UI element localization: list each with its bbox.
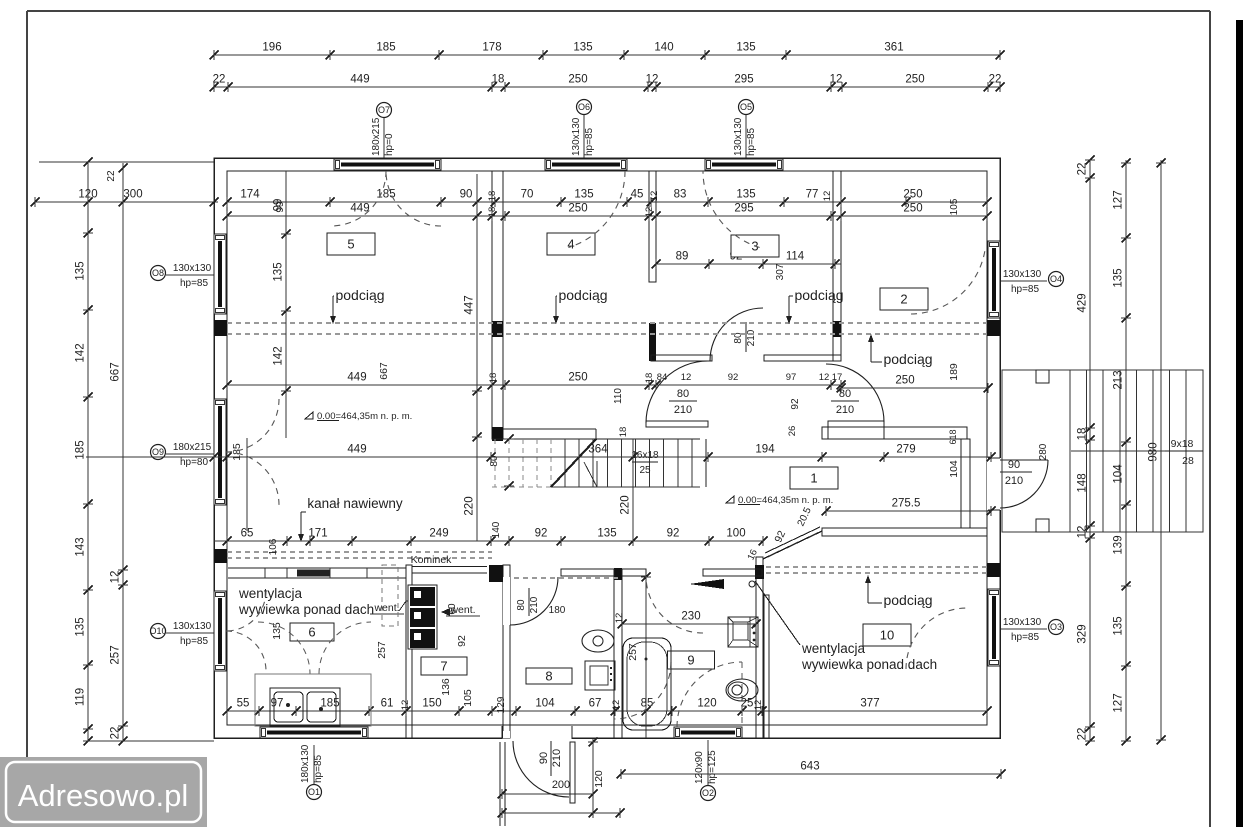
svg-text:280: 280 [1038,443,1049,460]
svg-text:130x130: 130x130 [733,117,744,156]
svg-text:18: 18 [492,74,505,86]
svg-text:135: 135 [1113,268,1125,287]
svg-text:12: 12 [681,372,692,383]
svg-text:127: 127 [1113,693,1125,712]
svg-text:275.5: 275.5 [905,502,908,504]
svg-text:18: 18 [488,373,499,384]
svg-text:139: 139 [1113,535,1125,554]
svg-text:130x130: 130x130 [173,263,212,274]
svg-text:22: 22 [1077,728,1089,741]
svg-text:135: 135 [597,528,616,540]
svg-text:200: 200 [552,779,570,791]
svg-text:185: 185 [231,443,243,461]
svg-text:250: 250 [903,203,922,215]
svg-text:O1: O1 [308,787,320,797]
svg-text:77: 77 [806,189,819,201]
svg-text:618: 618 [948,429,958,444]
svg-text:kanał nawiewny: kanał nawiewny [307,496,403,511]
svg-text:135: 135 [573,42,592,54]
svg-text:140: 140 [654,42,673,54]
svg-text:329: 329 [1077,624,1089,643]
svg-text:135: 135 [574,189,593,201]
svg-text:449: 449 [350,74,369,86]
svg-text:185: 185 [320,698,339,710]
svg-text:90: 90 [538,752,550,764]
svg-text:129: 129 [496,696,507,713]
svg-text:110: 110 [613,388,624,404]
svg-text:28: 28 [1182,455,1194,467]
svg-text:130x130: 130x130 [1003,269,1042,280]
svg-text:O6: O6 [578,102,590,112]
svg-text:210: 210 [529,596,540,613]
svg-text:12: 12 [819,372,830,383]
svg-text:257: 257 [110,645,122,664]
svg-text:361: 361 [884,42,903,54]
svg-text:185: 185 [376,189,395,201]
svg-text:Kominek: Kominek [411,554,453,566]
svg-text:180x215: 180x215 [173,442,212,453]
svg-text:went.: went. [373,602,399,614]
svg-text:250: 250 [568,74,587,86]
svg-text:250: 250 [568,372,587,384]
svg-text:89: 89 [676,251,689,263]
svg-text:O7: O7 [378,105,390,115]
svg-text:12: 12 [400,700,411,711]
svg-text:22: 22 [110,727,122,740]
svg-text:9: 9 [687,653,694,668]
svg-text:83: 83 [674,189,687,201]
svg-text:18: 18 [644,373,655,384]
svg-text:250: 250 [905,74,924,86]
svg-text:hp=85: hp=85 [313,754,324,783]
svg-text:O8: O8 [152,268,164,278]
svg-text:135: 135 [271,622,283,640]
svg-text:12: 12 [110,571,122,584]
svg-text:105: 105 [462,689,474,707]
svg-text:hp=0: hp=0 [384,133,395,156]
svg-text:12: 12 [649,191,660,202]
svg-text:hp=85: hp=85 [746,127,757,156]
svg-text:142: 142 [273,346,285,365]
svg-text:104: 104 [948,460,960,478]
svg-text:podciąg: podciąg [883,592,932,608]
svg-text:180: 180 [549,605,566,616]
svg-text:18: 18 [487,207,498,218]
svg-text:podciąg: podciąg [883,351,932,367]
svg-text:wentylacja: wentylacja [238,586,303,601]
svg-text:250: 250 [895,375,914,387]
svg-text:4: 4 [567,237,574,252]
svg-text:92: 92 [667,528,680,540]
svg-text:135: 135 [736,42,755,54]
svg-text:92: 92 [728,372,739,383]
svg-text:447: 447 [464,295,476,314]
svg-text:Adresowo.pl: Adresowo.pl [18,778,189,813]
svg-text:667: 667 [110,362,122,381]
svg-text:O10: O10 [149,626,166,636]
svg-text:213: 213 [1113,370,1125,389]
svg-text:17: 17 [832,372,843,383]
svg-text:O9: O9 [152,447,164,457]
svg-text:120: 120 [697,698,716,710]
svg-text:70: 70 [521,189,534,201]
svg-text:249: 249 [429,528,448,540]
svg-text:O5: O5 [740,102,752,112]
svg-text:307: 307 [775,263,786,280]
svg-text:65: 65 [241,528,254,540]
svg-text:196: 196 [262,42,281,54]
svg-text:hp=85: hp=85 [1011,284,1040,295]
svg-text:185: 185 [376,42,395,54]
svg-text:364: 364 [588,444,608,456]
svg-text:wentylacja: wentylacja [801,641,866,656]
svg-text:300: 300 [123,189,142,201]
svg-text:250: 250 [568,203,587,215]
svg-text:171: 171 [308,528,327,540]
svg-text:643: 643 [800,761,819,773]
svg-text:22: 22 [1077,163,1089,176]
svg-text:150: 150 [422,698,441,710]
svg-text:92: 92 [456,635,468,647]
svg-text:178: 178 [482,42,501,54]
svg-text:250: 250 [903,189,922,201]
svg-text:120: 120 [593,770,605,788]
svg-text:podciąg: podciąg [794,287,843,303]
svg-text:377: 377 [860,698,879,710]
svg-text:135: 135 [736,189,755,201]
svg-text:12: 12 [646,74,659,86]
svg-text:22: 22 [106,170,117,182]
svg-text:10: 10 [880,628,894,643]
svg-text:podciąg: podciąg [558,287,607,303]
svg-text:210: 210 [836,404,854,416]
svg-text:90: 90 [460,189,473,201]
svg-text:12: 12 [611,700,622,711]
svg-text:104: 104 [535,698,555,710]
svg-text:9x18: 9x18 [1171,438,1194,450]
svg-text:220: 220 [464,496,476,515]
svg-text:90: 90 [1008,459,1020,471]
svg-text:210: 210 [1005,475,1023,487]
svg-text:429: 429 [1077,293,1089,312]
svg-text:podciąg: podciąg [335,287,384,303]
svg-text:189: 189 [948,363,960,381]
svg-text:127: 127 [1113,190,1125,209]
svg-text:2: 2 [900,292,907,307]
svg-text:194: 194 [755,444,775,456]
svg-text:wywiewka ponad dach: wywiewka ponad dach [801,657,937,672]
svg-text:7: 7 [440,659,447,674]
svg-text:295: 295 [734,74,753,86]
svg-text:257: 257 [376,641,388,659]
svg-text:136: 136 [440,678,452,696]
svg-text:8: 8 [545,669,552,684]
svg-text:O4: O4 [1050,274,1062,284]
svg-text:295: 295 [734,203,753,215]
svg-text:135: 135 [75,617,87,636]
svg-text:5: 5 [347,237,354,252]
svg-text:279: 279 [896,444,915,456]
svg-text:210: 210 [746,329,757,346]
svg-text:174: 174 [240,189,260,201]
svg-text:210: 210 [674,404,692,416]
svg-text:99: 99 [273,199,285,212]
svg-text:100: 100 [726,528,745,540]
svg-text:6: 6 [308,625,315,640]
svg-text:12: 12 [822,191,833,202]
svg-text:106: 106 [268,538,279,555]
svg-text:135: 135 [75,261,87,280]
svg-text:85: 85 [641,698,654,710]
svg-text:12: 12 [753,700,764,711]
svg-text:18: 18 [618,427,629,438]
svg-text:went.: went. [449,604,475,616]
svg-text:130x130: 130x130 [1003,617,1042,628]
svg-text:142: 142 [75,343,87,362]
svg-text:84: 84 [657,372,668,383]
svg-text:230: 230 [681,611,700,623]
svg-text:180x215: 180x215 [371,117,382,156]
svg-text:hp=85: hp=85 [1011,632,1040,643]
svg-text:92: 92 [790,398,801,410]
svg-text:26: 26 [787,426,798,437]
svg-text:135: 135 [1113,616,1125,635]
svg-text:22: 22 [213,74,226,86]
svg-text:97: 97 [786,372,797,383]
svg-text:hp=85: hp=85 [584,127,595,156]
svg-text:61: 61 [381,698,394,710]
svg-text:135: 135 [273,262,285,281]
svg-text:hp=80: hp=80 [180,457,209,468]
svg-text:25: 25 [639,465,651,476]
svg-text:45: 45 [631,189,644,201]
svg-text:1: 1 [810,471,817,486]
svg-text:119: 119 [75,688,87,706]
svg-text:18: 18 [487,191,498,202]
svg-text:hp=125: hp=125 [707,750,718,784]
svg-text:667: 667 [378,362,390,380]
svg-text:12: 12 [614,613,625,624]
svg-text:12: 12 [830,74,843,86]
svg-text:80: 80 [516,599,527,611]
svg-text:143: 143 [75,537,87,556]
svg-text:130x130: 130x130 [571,117,582,156]
svg-text:O2: O2 [702,788,714,798]
svg-text:hp=85: hp=85 [180,278,209,289]
svg-text:80: 80 [677,388,689,400]
svg-text:114: 114 [786,251,805,263]
svg-text:22: 22 [989,74,1002,86]
svg-text:105: 105 [949,198,960,215]
svg-text:210: 210 [551,749,563,767]
svg-text:92: 92 [535,528,548,540]
svg-text:140: 140 [491,521,502,538]
svg-text:449: 449 [347,372,366,384]
svg-text:185: 185 [75,440,87,459]
svg-text:55: 55 [237,698,250,710]
svg-text:130x130: 130x130 [173,621,212,632]
svg-text:120x90: 120x90 [694,751,705,784]
svg-text:104: 104 [1113,464,1125,484]
svg-text:O3: O3 [1050,622,1062,632]
svg-text:449: 449 [347,444,366,456]
svg-text:12: 12 [644,207,655,218]
svg-text:220: 220 [620,495,632,514]
svg-text:180x130: 180x130 [300,744,311,783]
svg-text:97: 97 [271,698,284,710]
svg-text:hp=85: hp=85 [180,636,209,647]
svg-text:67: 67 [589,698,602,710]
